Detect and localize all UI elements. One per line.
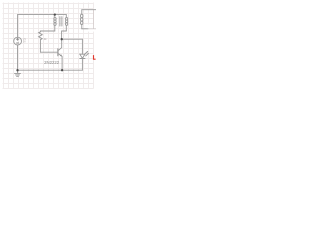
transistor Q1 emitter	[58, 53, 62, 70]
wire bottom rail	[18, 69, 63, 71]
inductor L1 top wire	[82, 9, 96, 11]
node dot top	[54, 13, 56, 15]
grid	[3, 3, 94, 89]
LED arrowheads	[87, 51, 88, 52]
LED emission arrows	[85, 52, 89, 56]
ground	[17, 70, 19, 73]
wire bottom rail right	[62, 69, 82, 71]
wire faint right vertical	[92, 10, 94, 29]
wire base	[40, 51, 58, 53]
transistor Q1 emitter arrowhead	[60, 54, 62, 56]
wire T1 right bottom jog	[62, 31, 67, 39]
node dot emitter	[61, 69, 63, 71]
transformer T1 core	[60, 17, 62, 26]
transformer T1 right winding	[65, 15, 67, 18]
transformer T1 left winding	[54, 15, 56, 18]
wire top rail to right winding	[55, 14, 67, 16]
transistor Q1 collector	[58, 39, 62, 51]
transistor Q1 base bar	[57, 49, 59, 56]
inductor L1 bottom wire	[82, 28, 88, 30]
wire LED riser	[81, 39, 83, 54]
node dot collector	[61, 38, 63, 40]
wire source top lead	[17, 15, 19, 38]
wire source bottom lead	[17, 45, 19, 70]
resistor R1	[39, 31, 43, 52]
inductor L1	[81, 10, 83, 15]
label patch white	[87, 25, 96, 32]
svg-text:2N2222: 2N2222	[44, 60, 60, 65]
node dot ground	[16, 69, 18, 71]
voltage source V1	[14, 37, 22, 45]
svg-text:5V: 5V	[23, 41, 26, 43]
wire collector rail	[62, 38, 83, 40]
wire faint bottom right	[88, 28, 96, 30]
wire resistor top	[40, 30, 54, 32]
LED D1	[80, 54, 85, 58]
label LED red	[94, 55, 96, 59]
wire top rail	[18, 14, 55, 16]
